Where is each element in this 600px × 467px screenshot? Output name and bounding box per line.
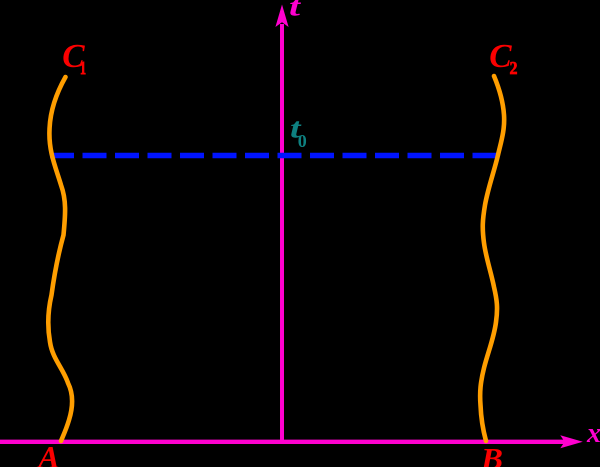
x-axis arrowhead: [560, 435, 583, 448]
svg-text:0: 0: [298, 131, 307, 151]
svg-text:A: A: [36, 439, 59, 467]
svg-text:t: t: [289, 0, 301, 23]
svg-text:B: B: [480, 441, 503, 467]
svg-text:2: 2: [510, 58, 518, 78]
wire dashed time-slice t0: [50, 153, 497, 159]
wire t-axis: [280, 24, 284, 442]
t-axis arrowhead: [275, 5, 288, 28]
curve C2 worldline: [480, 76, 504, 441]
curve C1 worldline: [48, 77, 72, 441]
svg-text:x: x: [586, 418, 600, 449]
svg-text:1: 1: [80, 58, 86, 78]
wire x-axis: [0, 440, 566, 444]
